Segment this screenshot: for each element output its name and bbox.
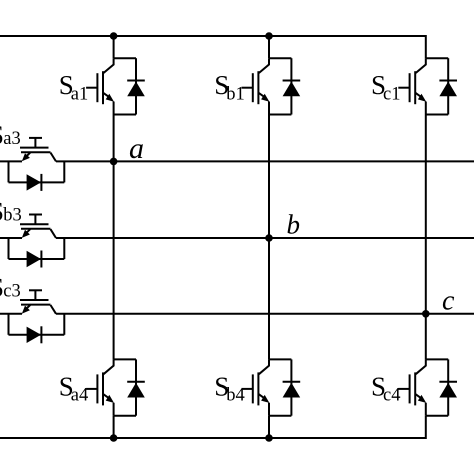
junction dot: bottom bus / phase-b leg [265,434,273,442]
IGBT Sb1: gate bar [252,73,254,102]
wire: top connecting bar of Sa4 cell [114,358,136,360]
wire: diode loop right branch of Sa3 [63,161,65,182]
junction dot: top bus / phase-a leg [110,32,118,40]
IGBT Sc3: gate lead with terminal cap [34,290,36,300]
antiparallel diode of Sc1: cathode bar [439,80,457,82]
wire: diode loop right branch of Sc3 [63,314,65,335]
IGBT Sa1: body bar [102,71,104,104]
IGBT Sb1: collector lead [259,58,269,73]
IGBT Sb3: emitter lead with arrow [27,229,31,233]
IGBT Sa4: gate lead [86,388,97,390]
antiparallel diode of Sa1: triangle [127,82,145,97]
IGBT Sc3: collector lead [51,305,57,314]
wire: phase-c leg, upper cell to lower cell [425,115,427,360]
wire: emitter to bottom bar of Sb1 [268,102,270,115]
bottom DC bus wire (turns up into phase-c leg) [0,416,426,438]
wire: row a horizontal net to right edge [56,160,474,162]
wire: diode branch of Sb4 [290,359,292,415]
series diode of Sb3: cathode bar [40,251,42,268]
IGBT Sc4: body bar [414,372,416,405]
wire: phase-b leg, lower cell to bottom bus [268,416,270,438]
wire: phase-a leg, top bus to upper cell [113,36,115,58]
antiparallel diode of Sc1: triangle [439,82,457,97]
series diode of Sc3: triangle [27,327,41,343]
wire: diode loop right branch of Sb3 [63,238,65,259]
IGBT Sa1: gate lead [86,87,97,89]
wire: phase-b leg, top bus to upper cell [268,36,270,58]
wire: phase-b leg, upper cell to lower cell [268,115,270,360]
IGBT Sa1: emitter lead with arrow [103,93,109,97]
junction dot: node b [265,234,273,242]
IGBT Sa1: gate bar [96,73,98,102]
wire: diode loop left branch of Sc3 [8,314,10,335]
IGBT Sb4: gate lead [242,388,253,390]
IGBT Sa3: gate lead with terminal cap [34,138,36,148]
antiparallel diode of Sb1: triangle [283,82,301,97]
junction dot: node a [110,158,118,166]
wire: emitter to bottom bar of Sa1 [113,102,115,115]
IGBT Sb1: body bar [257,71,259,104]
wire: diode branch of Sa4 [135,359,137,415]
wire: left lead of Sc3 cell (from image edge to emitter junction) [0,313,22,315]
IGBT Sb1: emitter lead with arrow [258,93,264,97]
wire: emitter to bottom bar of Sb4 [268,403,270,416]
wire: diode loop bottom of Sa3 [9,181,65,183]
IGBT Sc3: emitter lead with arrow [27,305,31,309]
wire: row b horizontal net to right edge [56,237,474,239]
antiparallel diode of Sa4: cathode bar [127,381,145,383]
wire: bottom connecting bar of Sb1 cell [269,114,291,116]
wire: diode loop bottom of Sc3 [9,334,65,336]
wire: diode loop left branch of Sa3 [8,161,10,182]
svg-text:c1: c1 [383,85,400,105]
junction dot: bottom bus / phase-a leg [110,434,118,442]
svg-text:a: a [129,132,144,165]
svg-text:a3: a3 [3,129,20,149]
wire: diode loop left branch of Sb3 [8,238,10,259]
IGBT Sc1: body bar [414,71,416,104]
antiparallel diode of Sc4: cathode bar [439,381,457,383]
wire: row c horizontal net to right edge [56,313,474,315]
IGBT Sb3: body bar [21,228,51,230]
wire: top connecting bar of Sa1 cell [114,57,136,59]
IGBT Sc1: gate lead [398,87,409,89]
IGBT Sa4: emitter lead with arrow [103,394,109,398]
IGBT Sc3: gate bar [20,299,49,301]
IGBT Sa3: emitter lead with arrow [27,153,31,157]
svg-text:b3: b3 [3,206,22,226]
svg-text:a1: a1 [71,85,88,105]
series diode of Sc3: cathode bar [40,326,42,343]
wire: bottom connecting bar of Sc4 cell [426,415,448,417]
IGBT Sa3: gate bar [20,147,49,149]
top DC bus wire (turns down into phase-c leg) [0,36,426,58]
IGBT Sb4: gate bar [252,374,254,403]
IGBT Sa4: body bar [102,372,104,405]
wire: bottom connecting bar of Sb4 cell [269,415,291,417]
antiparallel diode of Sb4: triangle [283,383,301,398]
IGBT Sb3: gate bar [20,223,49,225]
IGBT Sb3: collector lead [51,229,57,238]
series diode of Sb3: triangle [27,251,41,267]
junction dot: node c [422,310,430,318]
wire: diode loop bottom of Sb3 [9,258,65,260]
IGBT Sc4: gate lead [398,388,409,390]
wire: top connecting bar of Sb1 cell [269,57,291,59]
IGBT Sc3: body bar [21,304,51,306]
wire: diode branch of Sc4 [447,359,449,415]
wire: left lead of Sb3 cell (from image edge to emitter junction) [0,237,22,239]
wire: diode branch of Sb1 [290,58,292,114]
wire: emitter to bottom bar of Sc1 [425,102,427,115]
series diode of Sa3: cathode bar [40,174,42,191]
IGBT Sa3: collector lead [51,153,57,162]
wire: bottom connecting bar of Sa4 cell [114,415,136,417]
wire: phase-a leg, lower cell to bottom bus [113,416,115,438]
series diode of Sa3: triangle [27,174,41,190]
IGBT Sc1: collector lead [416,58,426,73]
IGBT Sa3: body bar [21,151,51,153]
wire: diode branch of Sc1 [447,58,449,114]
svg-text:b: b [287,210,301,240]
wire: left lead of Sa3 cell (from image edge to emitter junction) [0,160,22,162]
IGBT Sc4: collector lead [416,359,426,374]
wire: top connecting bar of Sb4 cell [269,358,291,360]
antiparallel diode of Sb1: cathode bar [283,80,301,82]
junction dot: top bus / phase-b leg [265,32,273,40]
antiparallel diode of Sa1: cathode bar [127,80,145,82]
wire: emitter to bottom bar of Sc4 [425,403,427,416]
IGBT Sb3: gate lead with terminal cap [34,215,36,225]
wire: emitter to bottom bar of Sa4 [113,403,115,416]
antiparallel diode of Sb4: cathode bar [283,381,301,383]
IGBT Sc4: gate bar [409,374,411,403]
antiparallel diode of Sa4: triangle [127,383,145,398]
IGBT Sa1: collector lead [104,58,114,73]
wire: phase-a leg, upper cell to lower cell [113,115,115,360]
wire: top connecting bar of Sc4 cell [426,358,448,360]
svg-text:c4: c4 [383,386,400,406]
IGBT Sb1: gate lead [242,87,253,89]
IGBT Sc1: emitter lead with arrow [415,93,421,97]
wire: bottom connecting bar of Sc1 cell [426,114,448,116]
svg-text:a4: a4 [71,386,88,406]
wire: diode branch of Sa1 [135,58,137,114]
svg-text:c: c [442,285,455,316]
IGBT Sb4: body bar [257,372,259,405]
IGBT Sc4: emitter lead with arrow [415,394,421,398]
IGBT Sb4: collector lead [259,359,269,374]
svg-text:b4: b4 [226,386,245,406]
wire: top connecting bar of Sc1 cell [426,57,448,59]
svg-text:c3: c3 [3,282,20,302]
IGBT Sb4: emitter lead with arrow [258,394,264,398]
antiparallel diode of Sc4: triangle [439,383,457,398]
svg-text:b1: b1 [226,85,245,105]
wire: bottom connecting bar of Sa1 cell [114,114,136,116]
IGBT Sa4: gate bar [96,374,98,403]
IGBT Sc1: gate bar [409,73,411,102]
IGBT Sa4: collector lead [104,359,114,374]
